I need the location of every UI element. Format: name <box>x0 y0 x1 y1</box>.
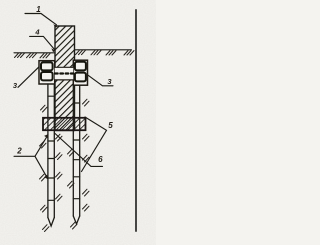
collar right bolt squares <box>75 62 86 71</box>
soil ticks along right pile, left side <box>68 149 78 229</box>
leader 3 left <box>18 67 39 88</box>
leader 6 <box>55 133 103 166</box>
hidden bolt dashed line <box>55 72 73 74</box>
ground line right <box>75 49 132 51</box>
leader 1 <box>25 14 57 25</box>
svg-text:6: 6 <box>98 155 103 164</box>
right pile shaft <box>73 85 79 224</box>
soil hatch ticks right ground <box>76 50 135 55</box>
collar left box <box>39 61 55 84</box>
leader 5 <box>82 117 107 172</box>
lower clamp band <box>43 118 86 130</box>
leader 4 <box>30 36 55 49</box>
svg-text:2: 2 <box>16 147 22 156</box>
soil ticks along right pile, right side <box>83 99 90 211</box>
paper noise <box>0 0 156 245</box>
leader 2 fork <box>14 135 48 157</box>
soil ticks along left pile, right side <box>56 134 63 201</box>
collar left bolt squares <box>41 62 53 70</box>
ground line left <box>14 52 55 54</box>
soil hatch ticks left ground <box>15 53 51 58</box>
right pile rungs <box>73 103 79 199</box>
svg-text:5: 5 <box>108 121 113 130</box>
svg-text:4: 4 <box>34 28 40 37</box>
leader 3 right <box>88 75 113 86</box>
left pile shaft <box>48 84 54 226</box>
soil ticks at left pile tip <box>43 225 50 232</box>
collar band across pole <box>55 67 74 80</box>
frame border line (page rule) <box>135 10 137 231</box>
svg-text:1: 1 <box>36 5 41 14</box>
left pile rungs <box>48 96 54 200</box>
collar right box <box>73 60 87 85</box>
soil ticks along left pile, left side <box>40 105 48 212</box>
pole (post) hatched body <box>55 26 75 131</box>
